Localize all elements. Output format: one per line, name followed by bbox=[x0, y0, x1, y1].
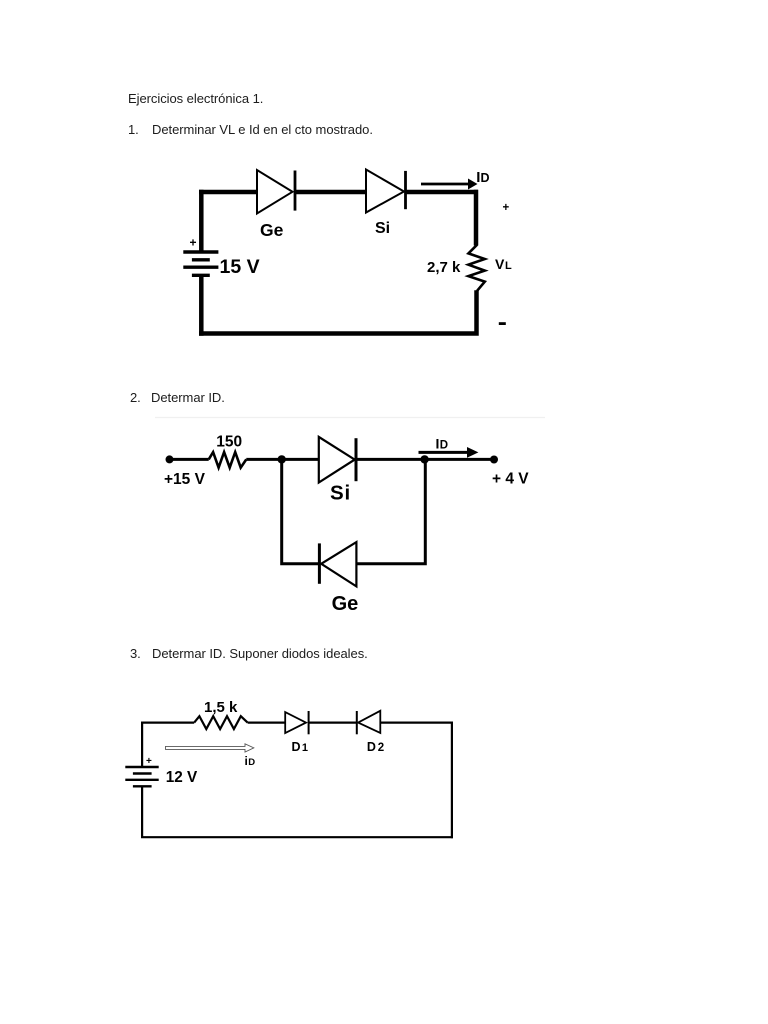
label 15 V bbox=[220, 256, 260, 278]
resistor 150 zigzag (circuit 2) bbox=[209, 452, 247, 468]
wire right vertical (circuit 3) bbox=[451, 722, 453, 839]
wire top-left corner to resistor bbox=[141, 721, 194, 723]
item 3 text bbox=[152, 646, 368, 661]
svg-text:2: 2 bbox=[378, 742, 384, 754]
label 150 bbox=[216, 433, 242, 450]
node right terminal dot bbox=[490, 456, 498, 464]
diode Ge cathode bar bbox=[294, 171, 297, 211]
battery plus sign (circuit 1) bbox=[190, 235, 197, 249]
wire D1 to D2 bbox=[309, 721, 357, 723]
wire Si bar to junction B bbox=[356, 458, 425, 461]
battery 15V (circuit 1) plates bbox=[183, 252, 218, 275]
wire D2 to right corner bbox=[380, 721, 452, 723]
label D1 bbox=[292, 740, 309, 754]
item 1 text bbox=[152, 122, 373, 137]
wire junction A down to bottom branch bbox=[282, 459, 320, 563]
wire top-left horizontal (battery to Ge diode) bbox=[199, 190, 257, 195]
label ID (circuit 1) bbox=[476, 169, 489, 186]
wire junction B to right dot bbox=[425, 458, 494, 461]
wire bottom (circuit 3) bbox=[141, 836, 453, 838]
wire right vertical upper (corner down to resistor) bbox=[474, 190, 479, 246]
svg-text:+15 V: +15 V bbox=[164, 471, 206, 488]
svg-text:D: D bbox=[248, 757, 255, 768]
item 2 text bbox=[151, 390, 225, 405]
wire resistor to junction A bbox=[246, 458, 281, 461]
label ID (circuit 2) bbox=[436, 436, 449, 452]
label Ge (circuit 1) bbox=[260, 220, 284, 240]
svg-text:I: I bbox=[436, 436, 440, 452]
node junction B dot bbox=[420, 455, 428, 463]
svg-text:V: V bbox=[495, 256, 505, 272]
current arrow iD hollow (circuit 3) bbox=[166, 744, 254, 752]
node left terminal dot bbox=[166, 455, 174, 463]
svg-text:D: D bbox=[367, 740, 376, 754]
label +15 V bbox=[164, 471, 206, 488]
svg-text:150: 150 bbox=[216, 433, 242, 450]
svg-text:Si: Si bbox=[375, 220, 390, 237]
svg-text:15 V: 15 V bbox=[220, 256, 260, 278]
label 12 V bbox=[166, 769, 198, 786]
wire resistor to D1 bbox=[248, 721, 286, 723]
svg-text:D: D bbox=[292, 740, 301, 754]
svg-text:D: D bbox=[440, 440, 448, 452]
wire Si to right corner bbox=[406, 190, 479, 195]
plus sign right (circuit 1) bbox=[503, 202, 510, 214]
item 1 number bbox=[128, 122, 139, 137]
label D2 bbox=[367, 740, 384, 754]
label Ge (circuit 2) bbox=[332, 593, 359, 615]
wire junction A to Si triangle bbox=[282, 458, 319, 461]
diode Ge (circuit 1) triangle bbox=[257, 170, 293, 214]
svg-text:D: D bbox=[481, 171, 490, 185]
label 1,5 k bbox=[204, 699, 238, 716]
diode Si cathode bar bbox=[404, 171, 407, 209]
label Si (circuit 1) bbox=[375, 220, 390, 237]
diode Si (circuit 2) triangle bbox=[319, 437, 355, 483]
label VL bbox=[495, 256, 512, 272]
wire left vertical upper (top corner down to battery +) bbox=[199, 190, 204, 252]
wire between Ge and Si diodes bbox=[295, 190, 366, 195]
svg-text:1: 1 bbox=[302, 742, 308, 754]
document title bbox=[128, 91, 263, 106]
label iD bbox=[245, 754, 256, 768]
svg-text:1,5 k: 1,5 k bbox=[204, 699, 238, 716]
svg-text:Si: Si bbox=[330, 482, 351, 505]
diode Si (circuit 2) cathode bar bbox=[355, 438, 358, 481]
svg-text:12 V: 12 V bbox=[166, 769, 198, 786]
diode D2 cathode bar bbox=[356, 711, 358, 734]
svg-text:Ge: Ge bbox=[260, 220, 284, 240]
diode D2 triangle pointing left bbox=[358, 711, 380, 733]
svg-text:2,7 k: 2,7 k bbox=[427, 259, 461, 276]
label Si (circuit 2) bbox=[330, 482, 351, 505]
svg-text:+: + bbox=[146, 756, 152, 767]
diode Ge (circuit 2) cathode bar bbox=[318, 543, 321, 583]
node junction A dot bbox=[278, 455, 286, 463]
diode D1 cathode bar bbox=[308, 711, 310, 734]
item 3 number bbox=[130, 646, 141, 661]
label 2,7 k bbox=[427, 259, 461, 276]
wire left vertical lower (battery - to bottom corner) bbox=[199, 275, 204, 335]
wire left dot to resistor bbox=[170, 458, 209, 461]
resistor 2.7k zigzag (circuit 1) bbox=[468, 245, 484, 291]
svg-text:L: L bbox=[505, 260, 512, 272]
svg-text:Ge: Ge bbox=[332, 593, 359, 615]
current arrow ID (circuit 1) bbox=[421, 179, 478, 190]
svg-text:+: + bbox=[503, 202, 510, 214]
battery plus sign (circuit 3) bbox=[146, 756, 152, 767]
wire Ge triangle to right side and up to junction B bbox=[356, 459, 425, 563]
wire left vertical upper (to battery) bbox=[141, 722, 143, 768]
current arrow ID (circuit 2) bbox=[419, 447, 479, 458]
faint image top edge artifact bbox=[155, 417, 545, 419]
minus sign right (circuit 1) bbox=[499, 322, 506, 325]
wire right vertical lower (resistor to bottom corner) bbox=[199, 290, 479, 335]
diode Ge (circuit 2) triangle pointing left bbox=[321, 542, 356, 586]
wire left vertical lower (battery to bottom) bbox=[141, 786, 143, 837]
resistor 1,5k zigzag (circuit 3) bbox=[194, 716, 247, 729]
battery 12V (circuit 3) plates bbox=[125, 767, 158, 786]
diode D1 triangle bbox=[285, 712, 306, 733]
item 2 number bbox=[130, 390, 141, 405]
diode Si (circuit 1) triangle bbox=[366, 170, 404, 213]
svg-text:+ 4 V: + 4 V bbox=[492, 471, 529, 488]
svg-text:+: + bbox=[190, 235, 197, 249]
label + 4 V bbox=[492, 471, 529, 488]
